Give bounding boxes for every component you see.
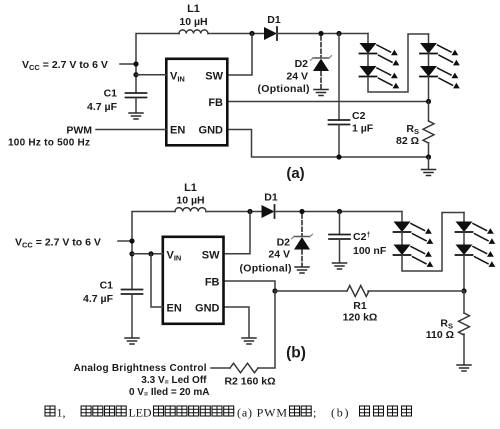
wire (368, 34, 429, 92)
node VIN (129, 251, 134, 256)
LED (420, 66, 460, 88)
LED (360, 66, 400, 88)
wire (275, 290, 347, 292)
node SW riser junction (249, 31, 254, 36)
node VIN (133, 72, 138, 77)
caption text (81, 406, 411, 420)
ground (295, 267, 309, 273)
resistor R1 (347, 286, 369, 297)
wire (338, 125, 340, 158)
wire (401, 212, 403, 222)
ground (242, 338, 256, 344)
wire (463, 334, 465, 365)
node C2 tap (336, 31, 341, 36)
svg-text:(b): (b) (331, 406, 349, 420)
node SW riser junction (247, 209, 252, 214)
IC U2 (163, 237, 224, 324)
wire (428, 143, 430, 157)
ground (314, 90, 328, 96)
wire (229, 34, 253, 76)
wire (463, 291, 465, 313)
node FB junction (272, 288, 277, 293)
wire dashed (301, 214, 303, 236)
svg-text:L1: L1 (187, 3, 200, 15)
diode D1 (264, 27, 277, 40)
wire (428, 54, 430, 67)
node Rs bottom (426, 154, 431, 159)
node R1/LED junction (461, 288, 466, 293)
resistor R2 (230, 363, 258, 373)
svg-text:SW: SW (205, 71, 223, 83)
LED (394, 245, 434, 267)
LED (360, 43, 400, 65)
svg-text:VIN: VIN (170, 71, 185, 84)
diode D1 (262, 205, 275, 218)
ground (125, 338, 139, 344)
wire (120, 63, 136, 65)
svg-text:C1: C1 (100, 280, 114, 292)
svg-text:100 Hz to 500 Hz: 100 Hz to 500 Hz (8, 138, 90, 149)
svg-text:(b): (b) (286, 345, 306, 362)
svg-text:10 µH: 10 µH (176, 195, 204, 207)
wire (206, 211, 262, 213)
wire (132, 253, 163, 255)
node C2 tap (337, 209, 342, 214)
wire (136, 74, 166, 76)
ground (422, 170, 436, 176)
svg-text:VCC = 2.7 V to 6 V: VCC = 2.7 V to 6 V (15, 237, 101, 250)
svg-text:;: ; (313, 406, 316, 420)
node EN tie (148, 251, 153, 256)
svg-text:(a): (a) (286, 165, 304, 182)
svg-text:C2: C2 (352, 110, 366, 122)
svg-text:(Optional): (Optional) (258, 83, 310, 95)
wire (428, 102, 430, 122)
wire (338, 34, 340, 121)
node VCC (133, 61, 138, 66)
wire (131, 294, 133, 338)
IC U1 (166, 59, 227, 146)
zener D2 (311, 56, 332, 71)
wire (428, 34, 430, 43)
inductor L1 (179, 30, 208, 34)
wire (339, 239, 341, 263)
node C2 bottom (336, 154, 341, 159)
wire (225, 212, 250, 254)
svg-text:(Optional): (Optional) (240, 263, 292, 275)
svg-text:120 kΩ: 120 kΩ (343, 312, 378, 324)
svg-text:(a) PWM: (a) PWM (237, 406, 287, 420)
svg-text:24 V: 24 V (268, 249, 290, 261)
wire FB net (229, 101, 429, 103)
wire (136, 34, 179, 94)
wire FB net (225, 281, 275, 291)
svg-text:VCC = 2.7 V to 6 V: VCC = 2.7 V to 6 V (22, 59, 108, 72)
svg-text:PWM: PWM (66, 125, 92, 137)
svg-text:4.7 µF: 4.7 µF (87, 101, 118, 113)
wire (277, 33, 368, 35)
svg-text:C2†: C2† (353, 231, 370, 243)
wire (401, 232, 403, 245)
wire dashed (301, 250, 303, 267)
wire (428, 77, 430, 102)
svg-text:L1: L1 (184, 182, 197, 194)
svg-text:EN: EN (170, 125, 185, 137)
svg-text:FB: FB (205, 277, 220, 289)
wire (339, 212, 341, 235)
wire (208, 33, 264, 35)
node VCC (129, 238, 134, 243)
wire (463, 232, 465, 245)
wire EN input (96, 129, 166, 131)
wire (211, 367, 230, 369)
resistor RS (423, 121, 434, 143)
svg-text:LED: LED (129, 406, 152, 420)
svg-text:D2: D2 (295, 58, 309, 70)
wire IC ground (225, 307, 249, 338)
LED (394, 222, 434, 244)
inductor L1 (175, 208, 206, 212)
node D2 tap (318, 31, 323, 36)
wire EN tie (151, 254, 163, 307)
wire (275, 211, 403, 213)
ground (457, 365, 471, 371)
wire (463, 213, 465, 222)
wire dashed (320, 72, 322, 89)
svg-text:10 µH: 10 µH (179, 16, 207, 28)
wire (118, 240, 132, 242)
wire (463, 255, 465, 291)
wire GND rail (229, 130, 429, 158)
svg-text:FB: FB (208, 97, 223, 109)
node D2 tap (299, 209, 304, 214)
svg-text:SW: SW (202, 250, 220, 262)
capacitor C1 (126, 93, 147, 98)
caption figure number (45, 406, 66, 420)
svg-text:1 µF: 1 µF (352, 123, 374, 135)
svg-text:1,: 1, (57, 406, 66, 420)
svg-text:Analog Brightness Control: Analog Brightness Control (74, 363, 207, 374)
svg-text:C1: C1 (104, 88, 118, 100)
capacitor C2 (329, 235, 350, 240)
wire (368, 290, 464, 292)
svg-text:110 Ω: 110 Ω (426, 329, 454, 341)
wire (428, 157, 430, 169)
capacitor C1 (122, 290, 143, 295)
wire (367, 34, 369, 44)
wire (402, 213, 464, 272)
wire (132, 212, 175, 290)
svg-text:R2 160 kΩ: R2 160 kΩ (224, 376, 275, 388)
svg-text:0 V= Iled = 20 mA: 0 V= Iled = 20 mA (129, 387, 210, 399)
wire dashed (320, 36, 322, 57)
svg-text:VIN: VIN (167, 250, 182, 263)
svg-text:100 nF: 100 nF (353, 245, 387, 257)
LED (420, 43, 460, 65)
svg-text:GND: GND (195, 303, 220, 315)
zener D2 (292, 234, 313, 249)
svg-text:D1: D1 (264, 192, 278, 204)
svg-text:4.7 µF: 4.7 µF (83, 293, 114, 305)
resistor RS (459, 313, 470, 335)
svg-text:82 Ω: 82 Ω (396, 135, 419, 147)
wire (135, 98, 137, 113)
LED (456, 222, 496, 244)
wire (367, 54, 369, 67)
ground (333, 263, 347, 269)
node FB/Rs junction (426, 99, 431, 104)
svg-text:GND: GND (199, 125, 224, 137)
svg-text:D2: D2 (277, 237, 291, 249)
svg-text:24 V: 24 V (286, 71, 308, 83)
svg-text:R1: R1 (353, 300, 367, 312)
svg-text:EN: EN (167, 303, 182, 315)
LED (456, 245, 496, 267)
svg-text:3.3 V= Led Off: 3.3 V= Led Off (141, 375, 207, 387)
wire R2 branch (258, 291, 275, 368)
capacitor C2 (329, 120, 350, 125)
ground (129, 113, 143, 119)
svg-text:D1: D1 (267, 14, 281, 26)
